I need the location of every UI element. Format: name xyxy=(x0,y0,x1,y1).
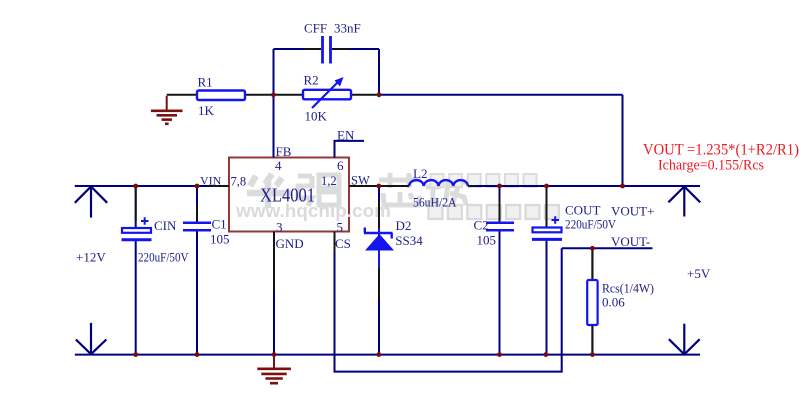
wire: D2 anode stub (blue) xyxy=(378,228,380,234)
wire: CS pin lead (black) xyxy=(334,232,336,253)
diode D2 SS34 xyxy=(364,228,394,251)
svg-text:XL4001: XL4001 xyxy=(260,185,315,207)
svg-text:R2: R2 xyxy=(304,73,319,88)
node: R2/CFF output junction xyxy=(377,92,382,97)
wire: D2 top lead (black) xyxy=(378,200,380,228)
svg-text:VOUT =1.235*(1+R2/R1): VOUT =1.235*(1+R2/R1) xyxy=(643,142,799,159)
capacitor COUT (electrolytic) xyxy=(532,216,562,239)
svg-text:10K: 10K xyxy=(305,109,328,124)
wire: EN pin xyxy=(335,141,365,158)
wire: L2 right lead (black) xyxy=(468,185,475,187)
wire: C1 top lead (black) xyxy=(196,204,198,220)
svg-text:105: 105 xyxy=(210,232,230,247)
node: CIN bottom junction xyxy=(133,352,138,357)
watermark char 2 xyxy=(298,175,339,206)
wire: GND pin drop xyxy=(273,232,275,355)
svg-text:C2: C2 xyxy=(474,218,489,233)
power arrow +5V top xyxy=(668,186,700,217)
svg-text:4: 4 xyxy=(275,158,282,173)
wire: R2 output to feedback drop xyxy=(379,94,623,96)
svg-text:6: 6 xyxy=(337,158,344,173)
node: feedback/output junction xyxy=(620,184,625,189)
power arrow +5V return bottom xyxy=(669,324,700,355)
svg-text:Rcs(1/4W): Rcs(1/4W) xyxy=(602,281,654,296)
svg-text:COUT: COUT xyxy=(565,203,600,218)
wire: D2 bottom lead (black) xyxy=(378,268,380,300)
resistor Rcs xyxy=(587,280,597,325)
watermark line: online store xyxy=(429,205,559,219)
svg-text:+12V: +12V xyxy=(76,250,106,265)
wire: SW lead (black) xyxy=(349,185,377,187)
wire: Rcs branch xyxy=(591,248,593,354)
node: C1 top junction xyxy=(195,184,200,189)
svg-text:D2: D2 xyxy=(396,218,412,233)
svg-text:7,8: 7,8 xyxy=(231,175,247,189)
svg-text:SW: SW xyxy=(351,174,370,188)
capacitor C2 xyxy=(486,223,514,231)
wire: COUT top lead (black) xyxy=(546,188,548,226)
wire: COUT branch bottom xyxy=(546,240,548,355)
node: CIN top junction xyxy=(133,184,138,189)
wire: CFF loop top right xyxy=(332,48,379,50)
node: COUT top junction xyxy=(544,184,549,189)
power arrow +12V top xyxy=(75,186,107,218)
node: C2 bottom junction xyxy=(497,352,502,357)
wire: bottom ground rail xyxy=(75,354,700,356)
svg-text:CFF: CFF xyxy=(304,21,327,36)
node: R1/R2/FB junction xyxy=(271,92,276,97)
power arrow -12V return bottom xyxy=(76,323,106,355)
wire: VOUT- horizontal xyxy=(562,247,653,249)
capacitor CFF xyxy=(323,36,331,64)
node: Rcs bottom junction xyxy=(590,352,595,357)
wire: feedback vertical drop xyxy=(622,95,624,186)
wire: D2 bottom stub (blue) xyxy=(378,251,380,269)
svg-text:220uF/50V: 220uF/50V xyxy=(565,217,617,232)
wire: top rail left xyxy=(75,185,229,187)
wire: C1 branch bottom xyxy=(196,232,198,355)
watermark char 1 xyxy=(247,174,291,208)
svg-text:VOUT-: VOUT- xyxy=(611,234,650,249)
wire: Rcs top lead (black) xyxy=(591,250,593,280)
wire: CS sense path xyxy=(335,232,562,372)
svg-text:VOUT+: VOUT+ xyxy=(611,204,654,219)
resistor R1 xyxy=(197,91,245,101)
wire: CFF lead left (black) xyxy=(304,48,321,50)
capacitor CIN (electrolytic) xyxy=(122,217,152,240)
watermark line: 集团旗下 xyxy=(431,174,537,187)
svg-text:56uH/2A: 56uH/2A xyxy=(413,195,457,210)
ground (near R1) xyxy=(151,96,183,124)
wire: D2 branch xyxy=(378,186,380,355)
svg-text:105: 105 xyxy=(477,233,497,248)
svg-text:CS: CS xyxy=(335,236,351,251)
svg-text:+5V: +5V xyxy=(687,266,711,281)
svg-text:SS34: SS34 xyxy=(395,233,423,248)
wire: CIN branch bottom xyxy=(135,241,137,355)
wire: CFF loop top left xyxy=(274,48,322,50)
svg-text:CIN: CIN xyxy=(154,218,177,233)
node: D2 bottom junction xyxy=(376,352,381,357)
node: VOUT-/Rcs junction xyxy=(590,246,595,251)
wire: C2 branch top xyxy=(499,186,501,222)
watermark char 4 xyxy=(426,176,466,206)
wire: FB pin vertical xyxy=(273,95,275,158)
wire: SW rail to L2 xyxy=(349,185,409,187)
wire: CIN branch top xyxy=(135,186,137,228)
wire: GND pin lead (black) xyxy=(273,232,275,291)
inductor L2 xyxy=(409,180,468,186)
watermark char 3 xyxy=(379,173,421,205)
svg-text:220uF/50V: 220uF/50V xyxy=(138,250,189,265)
ground (below GND pin) xyxy=(257,355,291,384)
svg-text:1,2: 1,2 xyxy=(321,174,337,188)
svg-text:EN: EN xyxy=(337,128,355,143)
wire: Rcs bottom lead (black) xyxy=(591,325,593,354)
wire: C2 top lead (black) xyxy=(499,200,501,220)
wire: L2 left lead (black) xyxy=(381,185,409,187)
node: COUT bottom junction xyxy=(543,352,548,357)
svg-text:C1: C1 xyxy=(212,217,227,232)
svg-text:0.06: 0.06 xyxy=(602,295,625,310)
resistor R2 (adjustable) xyxy=(303,77,351,108)
capacitor C1 xyxy=(183,223,211,231)
svg-text:1K: 1K xyxy=(198,103,215,118)
wire: CFF loop right vertical xyxy=(378,49,380,95)
wire: CFF lead right (black) xyxy=(333,48,350,50)
svg-text:L2: L2 xyxy=(413,166,427,181)
wire: C2 branch bottom xyxy=(499,232,501,355)
wire: C1 branch top xyxy=(196,186,198,222)
svg-text:3: 3 xyxy=(276,220,283,235)
node: GND rail junction xyxy=(272,352,277,357)
wire: R1-R2 net (black) xyxy=(167,94,379,96)
svg-text:GND: GND xyxy=(276,236,304,251)
svg-text:Icharge=0.155/Rcs: Icharge=0.155/Rcs xyxy=(658,158,764,174)
op-amp U1 XL4001 box fill xyxy=(229,158,349,232)
wire: L2 to +5V rail xyxy=(468,185,700,187)
wire: CFF loop left vertical xyxy=(273,49,275,95)
svg-text:VIN: VIN xyxy=(200,174,222,188)
wire: CIN top lead (black) xyxy=(135,187,137,221)
svg-text:FB: FB xyxy=(276,144,292,159)
node: C2 top junction xyxy=(497,184,502,189)
wire: VIN lead (black) xyxy=(210,185,229,187)
svg-text:5: 5 xyxy=(337,220,344,235)
wire: COUT branch top xyxy=(546,186,548,228)
node: SW/D2 junction xyxy=(376,184,381,189)
svg-text:R1: R1 xyxy=(198,75,213,90)
node: C1 bottom junction xyxy=(195,352,200,357)
svg-text:33nF: 33nF xyxy=(334,21,361,36)
